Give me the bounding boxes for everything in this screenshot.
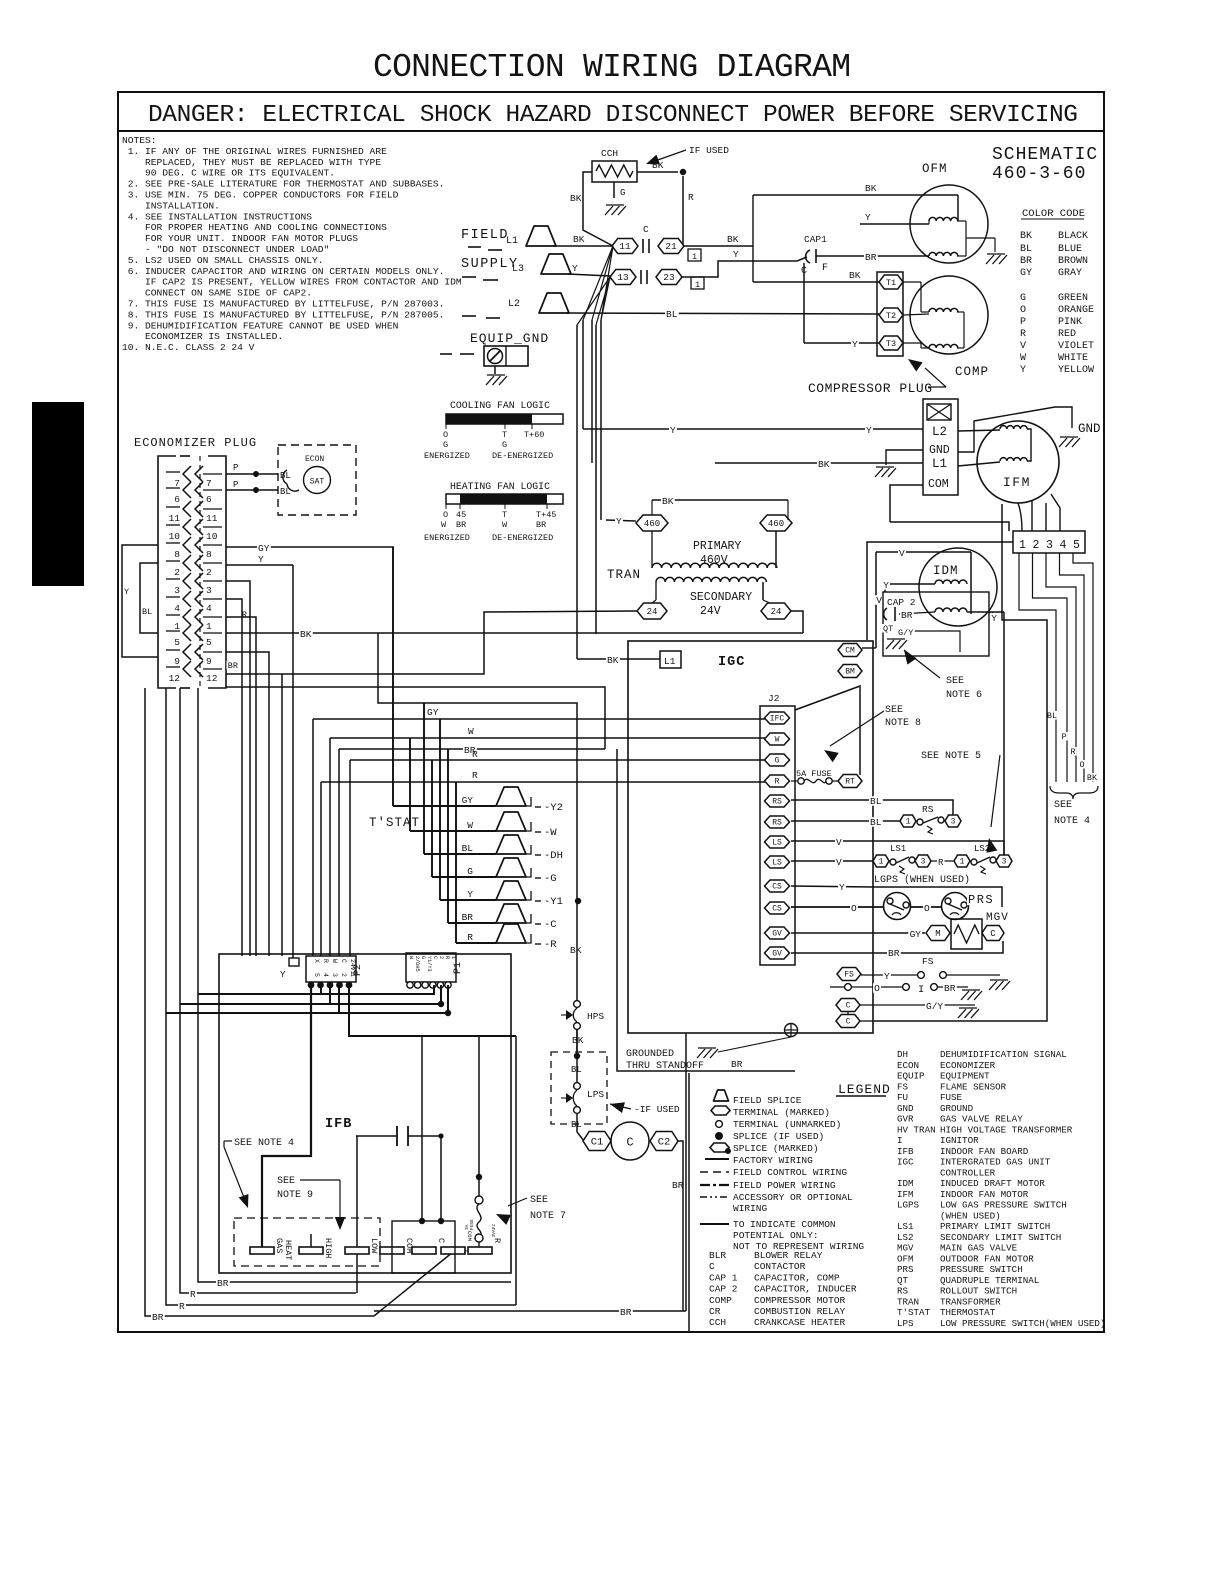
LPS dashed box: [551, 1052, 607, 1124]
svg-text:45: 45: [456, 510, 466, 520]
svg-text:BR: BR: [152, 1312, 164, 1323]
svg-text:BL: BL: [280, 471, 291, 481]
svg-text:IFM: IFM: [1003, 475, 1031, 490]
LGPS box: [873, 887, 1002, 907]
svg-text:13: 13: [617, 272, 629, 283]
svg-text:5: 5: [313, 973, 320, 977]
svg-text:FS: FS: [922, 956, 934, 967]
svg-text:COOLING FAN LOGIC: COOLING FAN LOGIC: [450, 400, 550, 411]
svg-text:PRS: PRS: [968, 893, 994, 907]
svg-text:BK: BK: [865, 183, 877, 194]
legend field power wiring: [700, 1184, 729, 1186]
svg-text:SEE: SEE: [946, 676, 964, 687]
terminal J2 IFC 718: [765, 712, 790, 724]
svg-text:1: 1: [206, 621, 212, 632]
terminal T1: [879, 275, 903, 289]
IGC box: [628, 641, 873, 1033]
svg-text:BLUE: BLUE: [1058, 244, 1082, 255]
svg-text:1. IF ANY OF THE ORIGINAL WIRE: 1. IF ANY OF THE ORIGINAL WIRES FURNISHE…: [122, 146, 387, 157]
wire economizer pin1 vertical: [226, 617, 256, 956]
svg-text:BR: BR: [944, 983, 956, 994]
wire economizer left Y loop: [122, 545, 158, 657]
IFM motor circle: [977, 421, 1059, 503]
ground below equip lug: [487, 374, 505, 376]
IFM wires from plug: [958, 430, 1000, 431]
svg-text:COM: COM: [928, 478, 949, 491]
svg-text:TO INDICATE COMMON: TO INDICATE COMMON: [733, 1219, 836, 1230]
svg-text:LS2: LS2: [897, 1232, 914, 1243]
svg-text:GAS: GAS: [274, 1238, 284, 1253]
wire R down to terminal 21: [682, 176, 684, 246]
svg-text:CAPACITOR, INDUCER: CAPACITOR, INDUCER: [754, 1284, 857, 1295]
wire L1 feed: [577, 658, 660, 660]
svg-text:R: R: [472, 770, 478, 781]
svg-text:2: 2: [340, 973, 347, 977]
svg-text:I: I: [918, 984, 924, 996]
svg-text:BK: BK: [662, 496, 674, 507]
fuse in IFB: [475, 1196, 483, 1204]
svg-text:T+45: T+45: [536, 510, 556, 520]
svg-text:-IF USED: -IF USED: [634, 1104, 680, 1115]
svg-text:L1: L1: [664, 656, 676, 667]
svg-text:LS1: LS1: [890, 844, 906, 854]
svg-text:8: 8: [174, 549, 180, 560]
svg-text:LOW GAS PRESSURE SWITCH: LOW GAS PRESSURE SWITCH: [940, 1200, 1067, 1211]
wire Y into OFM: [860, 223, 929, 225]
svg-text:3A: 3A: [464, 1224, 470, 1230]
wire BR label bottom left: [151, 1312, 165, 1322]
svg-text:1: 1: [879, 858, 884, 867]
svg-text:C2: C2: [658, 1137, 671, 1149]
svg-text:460V: 460V: [700, 554, 728, 567]
svg-text:V: V: [836, 837, 842, 848]
terminal J2 LS 862: [765, 856, 790, 868]
svg-text:DANGER: ELECTRICAL SHOCK HAZAR: DANGER: ELECTRICAL SHOCK HAZARD DISCONNE…: [148, 102, 1078, 129]
terminal CM: [838, 644, 862, 657]
svg-text:9: 9: [174, 656, 180, 667]
wire into splice -DH: [424, 853, 496, 855]
svg-text:CRANKCASE HEATER: CRANKCASE HEATER: [754, 1317, 846, 1328]
svg-text:ECONOMIZER IS INSTALLED.: ECONOMIZER IS INSTALLED.: [122, 331, 283, 342]
terminal J2 G 760: [765, 754, 790, 766]
wire BK below HPS: [576, 1029, 578, 1052]
svg-text:W: W: [441, 520, 447, 530]
svg-text:OUTDOOR FAN MOTOR: OUTDOOR FAN MOTOR: [940, 1253, 1034, 1264]
svg-text:IFM: IFM: [897, 1189, 914, 1200]
terminal T3: [879, 336, 903, 350]
wire plug COM down to IGC CM and strip pin1: [890, 485, 923, 522]
wire legend-left vertical: [685, 1033, 687, 1311]
wire W row to J2 W: [330, 737, 765, 739]
svg-text:FIELD POWER WIRING: FIELD POWER WIRING: [733, 1180, 836, 1191]
wire R row2 to J2 R: [321, 781, 765, 783]
svg-text:5: 5: [206, 637, 212, 648]
svg-text:LS: LS: [772, 859, 782, 868]
svg-text:Y: Y: [991, 613, 997, 624]
svg-text:SEE NOTE 5: SEE NOTE 5: [921, 751, 981, 762]
svg-text:-DH: -DH: [544, 850, 563, 862]
IFM coil top: [1000, 426, 1027, 429]
svg-text:P: P: [1061, 732, 1066, 742]
svg-text:WHITE: WHITE: [1058, 353, 1088, 364]
svg-text:2: 2: [438, 956, 444, 959]
svg-text:O: O: [1079, 760, 1084, 770]
svg-text:8. THIS FUSE IS MANUFACTURED B: 8. THIS FUSE IS MANUFACTURED BY LITTELFU…: [122, 309, 444, 320]
svg-text:IDM: IDM: [897, 1178, 914, 1189]
svg-text:9: 9: [206, 656, 212, 667]
IF USED arrow LPS: [610, 1102, 625, 1113]
svg-text:P: P: [1020, 317, 1026, 328]
svg-text:SECONDARY LIMIT SWITCH: SECONDARY LIMIT SWITCH: [940, 1232, 1061, 1243]
svg-text:Y: Y: [124, 587, 129, 597]
svg-text:HPS: HPS: [587, 1011, 604, 1022]
svg-text:BL: BL: [1047, 711, 1057, 721]
terminal J2 GV 953: [765, 947, 790, 959]
legend field splice symbol: [714, 1090, 729, 1101]
svg-text:INTERGRATED GAS UNIT: INTERGRATED GAS UNIT: [940, 1157, 1051, 1168]
wire V vertical: [875, 552, 877, 648]
economizer plug left shell: [158, 456, 176, 688]
primary coil: [651, 531, 653, 568]
svg-text:GY: GY: [258, 543, 270, 554]
svg-text:Y: Y: [733, 249, 739, 260]
svg-text:NOTE 8: NOTE 8: [885, 718, 921, 729]
svg-text:RS: RS: [897, 1286, 909, 1297]
legend splice marked: [710, 1143, 729, 1152]
svg-text:PRIMARY: PRIMARY: [693, 540, 741, 553]
wire BR to IDM coil2: [899, 612, 935, 614]
svg-text:C: C: [436, 1238, 446, 1243]
terminal C2: [650, 1132, 678, 1151]
svg-text:OFM: OFM: [922, 162, 948, 176]
svg-text:10: 10: [206, 531, 218, 542]
wire CS row2 O: [791, 906, 884, 908]
IFM leads to plug strip: [1031, 501, 1033, 531]
svg-text:10: 10: [169, 531, 181, 542]
legend common potential: [700, 1223, 729, 1225]
svg-text:HEATING FAN LOGIC: HEATING FAN LOGIC: [450, 481, 550, 492]
contactor coil C: [611, 1122, 649, 1160]
svg-text:V: V: [836, 857, 842, 868]
svg-text:24V: 24V: [700, 605, 721, 618]
wire V top of IDM: [876, 551, 971, 553]
wire Y into IDM coil1: [885, 584, 935, 592]
svg-text:(WHEN USED): (WHEN USED): [940, 1210, 1001, 1221]
svg-text:MGV: MGV: [986, 912, 1009, 924]
terminal J2 LS 842: [765, 836, 790, 848]
svg-text:C: C: [709, 1261, 715, 1272]
wire economizer pin9 vertical: [226, 652, 269, 956]
contact capacitor C row2: [640, 270, 642, 284]
field wiring dashes row3: [462, 315, 476, 317]
svg-text:2: 2: [206, 567, 212, 578]
svg-text:CCH: CCH: [601, 148, 618, 159]
svg-text:LGPS: LGPS: [897, 1200, 920, 1211]
svg-text:BR: BR: [217, 1278, 229, 1289]
COMP coil top: [929, 308, 958, 312]
wire into splice -G: [432, 876, 496, 878]
svg-text:BK: BK: [570, 193, 582, 204]
svg-text:BK: BK: [300, 629, 312, 640]
ground right of OFM: [987, 253, 1005, 255]
crankcase heater CCH: [592, 161, 637, 182]
terminal 24 right: [761, 603, 791, 619]
wire standoff BR: [617, 749, 795, 1071]
wire IDM Y down to LS2: [1003, 612, 1005, 855]
CAP2 capacitor symbol: [884, 608, 887, 620]
svg-text:Y: Y: [866, 425, 872, 436]
svg-text:OFM: OFM: [897, 1253, 914, 1264]
svg-text:3. USE MIN. 75 DEG. COPPER CON: 3. USE MIN. 75 DEG. COPPER CONDUCTORS FO…: [122, 190, 399, 201]
svg-text:BR: BR: [865, 252, 877, 263]
wires below P2/P1: [262, 985, 311, 1249]
legend accessory wiring: [700, 1196, 729, 1198]
GND diagonal wire: [958, 407, 1072, 452]
wire equip gnd down: [494, 366, 496, 374]
terminal 11: [612, 239, 638, 254]
svg-text:QUADRUPLE TERMINAL: QUADRUPLE TERMINAL: [940, 1275, 1039, 1286]
wire GV row1 GY: [791, 932, 925, 934]
svg-text:BL: BL: [870, 817, 882, 828]
wire C lower: [860, 1020, 874, 1022]
svg-text:IF USED: IF USED: [689, 145, 729, 156]
svg-text:HV TRAN: HV TRAN: [897, 1124, 936, 1135]
svg-text:GV: GV: [772, 930, 782, 939]
svg-text:5: 5: [1073, 539, 1080, 552]
svg-text:GY: GY: [462, 795, 474, 806]
svg-text:DE-ENERGIZED: DE-ENERGIZED: [492, 533, 553, 543]
svg-text:GROUND: GROUND: [940, 1103, 974, 1114]
svg-text:5: 5: [174, 637, 180, 648]
svg-text:Y: Y: [572, 263, 578, 274]
legend left border: [688, 1073, 690, 1332]
svg-text:Y: Y: [616, 516, 622, 527]
svg-text:3: 3: [1046, 539, 1053, 552]
wire CAP1 C to T3 vertical: [803, 263, 805, 343]
svg-text:IDM: IDM: [933, 564, 959, 578]
svg-text:RS: RS: [772, 798, 782, 807]
wire 23 to CAP1: [682, 257, 807, 277]
svg-text:P: P: [233, 480, 238, 490]
svg-text:LOW PRESSURE SWITCH(WHEN USED): LOW PRESSURE SWITCH(WHEN USED): [940, 1318, 1105, 1329]
svg-text:3: 3: [206, 585, 212, 596]
svg-text:1: 1: [349, 973, 356, 977]
svg-text:BK: BK: [607, 655, 619, 666]
wire G/Y CAP2: [914, 631, 960, 652]
svg-text:HIGH VOLTAGE TRANSFORMER: HIGH VOLTAGE TRANSFORMER: [940, 1124, 1073, 1135]
wire LS1 to LS2 R: [931, 860, 954, 862]
OFM coil top: [929, 217, 958, 221]
svg-text:460: 460: [768, 519, 784, 529]
wire into splice -W: [410, 830, 496, 832]
thermostat splice -DH: [496, 835, 526, 854]
wire into splice -Y2: [393, 805, 496, 807]
svg-text:BR: BR: [672, 1180, 684, 1191]
svg-text:CS: CS: [772, 905, 782, 914]
svg-text:ENERGIZED: ENERGIZED: [424, 451, 470, 461]
svg-text:INSTALLATION.: INSTALLATION.: [122, 200, 220, 211]
terminal 21: [658, 239, 684, 254]
svg-text:2: 2: [1033, 539, 1040, 552]
svg-text:DE-ENERGIZED: DE-ENERGIZED: [492, 451, 553, 461]
svg-text:11: 11: [619, 241, 631, 252]
svg-text:90 DEG. C WIRE OR ITS EQUIVALE: 90 DEG. C WIRE OR ITS EQUIVALENT.: [122, 168, 335, 179]
wire P row2: [226, 489, 278, 491]
svg-text:T1: T1: [886, 278, 896, 288]
svg-text:PINK: PINK: [1058, 317, 1082, 328]
svg-text:ECONOMIZER: ECONOMIZER: [940, 1060, 996, 1071]
svg-text:CAP1: CAP1: [804, 234, 827, 245]
svg-text:LOW: LOW: [369, 1238, 379, 1254]
wire bottom BR long: [374, 1310, 686, 1312]
svg-text:T: T: [502, 430, 507, 440]
PRS label: [967, 893, 991, 905]
svg-text:IGC: IGC: [718, 655, 745, 670]
svg-text:BLOWER RELAY: BLOWER RELAY: [754, 1250, 823, 1261]
svg-text:BM: BM: [845, 668, 855, 677]
svg-text:O: O: [443, 430, 448, 440]
terminal BM: [838, 665, 862, 678]
svg-text:PRESSURE SWITCH: PRESSURE SWITCH: [940, 1264, 1023, 1275]
svg-text:BK: BK: [1087, 773, 1098, 783]
wire CCH left to contactor: [583, 172, 613, 246]
svg-text:4: 4: [206, 603, 212, 614]
J2 connector outline: [760, 706, 795, 965]
svg-text:NOTE 4: NOTE 4: [1054, 816, 1090, 827]
svg-text:FS: FS: [844, 971, 854, 980]
svg-text:CM: CM: [845, 647, 855, 656]
svg-text:V: V: [1020, 341, 1026, 352]
terminal J2 CS 908: [765, 902, 790, 914]
svg-text:C: C: [846, 1018, 851, 1027]
IFM coil bracket: [1027, 429, 1031, 461]
wire OFM internal: [957, 195, 959, 221]
IFB dashed box: [234, 1218, 380, 1266]
svg-text:G: G: [443, 440, 448, 450]
bundle verticals: [582, 320, 584, 429]
COMP motor circle: [910, 276, 988, 354]
wire left nest R row2: [180, 688, 356, 1293]
svg-text:IF CAP2 IS PRESENT, YELLOW WIR: IF CAP2 IS PRESENT, YELLOW WIRES FROM CO…: [122, 277, 462, 288]
svg-text:R: R: [688, 192, 694, 203]
svg-text:SCHEMATIC: SCHEMATIC: [992, 145, 1098, 165]
svg-text:Y: Y: [258, 554, 264, 565]
outdoor fan motor OFM: [910, 185, 988, 263]
svg-text:BL: BL: [462, 843, 474, 854]
svg-text:QT: QT: [883, 624, 893, 634]
svg-text:G/Y: G/Y: [898, 628, 913, 638]
danger banner box: [118, 130, 1104, 132]
COMP coil bottom: [929, 344, 958, 348]
svg-text:24: 24: [771, 607, 782, 617]
svg-text:V: V: [899, 548, 905, 559]
svg-text:Y: Y: [280, 970, 286, 980]
svg-text:NOTES:: NOTES:: [122, 135, 157, 146]
svg-text:C: C: [340, 959, 347, 963]
svg-text:R: R: [467, 932, 473, 943]
svg-text:-G: -G: [544, 873, 557, 885]
grounded thru standoff symbol: [785, 1024, 798, 1037]
svg-text:T+60: T+60: [524, 430, 544, 440]
wire L2 BL long to T2: [566, 313, 879, 314]
svg-text:T3: T3: [886, 339, 896, 349]
wire 24 left out to economizer: [226, 611, 637, 674]
equip ground lug: [484, 346, 528, 366]
wire GY from economizer: [226, 546, 394, 548]
svg-text:R: R: [1070, 747, 1075, 757]
svg-text:CAP 2: CAP 2: [887, 597, 916, 608]
svg-text:R: R: [938, 858, 944, 868]
svg-text:1: 1: [960, 858, 965, 867]
wire economizer pin12 tee vertical: [281, 674, 283, 956]
svg-text:11: 11: [206, 513, 218, 524]
svg-text:T'STAT: T'STAT: [897, 1307, 931, 1318]
svg-text:WIRING: WIRING: [733, 1203, 768, 1214]
wire Y to T3: [804, 342, 879, 344]
svg-text:GVR: GVR: [897, 1114, 914, 1125]
legend factory wiring: [705, 1158, 729, 1160]
svg-text:Y: Y: [884, 971, 890, 982]
IFB box: [219, 954, 511, 1273]
svg-text:C: C: [846, 1002, 851, 1011]
OFM coil bottom: [929, 252, 958, 256]
svg-text:O: O: [924, 903, 930, 914]
ground top right: [1060, 436, 1078, 438]
svg-text:BLACK: BLACK: [1058, 231, 1088, 242]
svg-text:I: I: [897, 1135, 903, 1146]
svg-text:R: R: [190, 1289, 196, 1300]
svg-text:3: 3: [1002, 858, 1007, 867]
wire R vertical from economizer pin3: [226, 581, 250, 956]
svg-text:BK: BK: [570, 945, 582, 956]
svg-text:Y: Y: [839, 882, 845, 893]
svg-text:6: 6: [174, 494, 180, 505]
contact capacitor C row1: [642, 239, 644, 253]
svg-text:G: G: [620, 188, 625, 198]
legend terminal unmarked: [716, 1121, 723, 1128]
svg-text:460: 460: [644, 519, 660, 529]
wire dots up: [421, 1036, 423, 1221]
svg-text:IFC: IFC: [770, 715, 785, 724]
svg-text:9. DEHUMIDIFICATION FEATURE CA: 9. DEHUMIDIFICATION FEATURE CANNOT BE US…: [122, 320, 398, 331]
connector P1 box: [406, 953, 456, 982]
svg-text:TRAN: TRAN: [897, 1296, 919, 1307]
svg-text:460-3-60: 460-3-60: [992, 164, 1086, 184]
wire coil2 to Y vertical: [967, 611, 1004, 613]
wire CCH ground stub: [613, 182, 615, 198]
svg-text:G: G: [502, 440, 507, 450]
svg-text:- "DO NOT DISCONNECT UNDER LOA: - "DO NOT DISCONNECT UNDER LOAD": [122, 244, 329, 255]
black page tab: [32, 402, 84, 586]
svg-text:6. INDUCER CAPACITOR AND WIRIN: 6. INDUCER CAPACITOR AND WIRING ON CERTA…: [122, 266, 444, 277]
IFB terminals: [250, 1247, 274, 1254]
svg-text:GY: GY: [1020, 268, 1032, 279]
wire BK vertical to OFM and T1: [752, 195, 754, 282]
svg-text:FLAME SENSOR: FLAME SENSOR: [940, 1081, 1007, 1092]
svg-text:BK: BK: [727, 234, 739, 245]
wire BK to T1: [753, 281, 879, 283]
svg-text:ACCESSORY OR OPTIONAL: ACCESSORY OR OPTIONAL: [733, 1192, 853, 1203]
HIGH stub: [310, 1234, 312, 1247]
svg-text:EQUIPMENT: EQUIPMENT: [940, 1071, 990, 1082]
svg-text:BR: BR: [1020, 256, 1032, 267]
terminal RT: [838, 775, 862, 788]
svg-text:NOTE 9: NOTE 9: [277, 1190, 313, 1201]
svg-text:FOR YOUR UNIT. INDOOR FAN MOTO: FOR YOUR UNIT. INDOOR FAN MOTOR PLUGS: [122, 233, 358, 244]
svg-text:C: C: [990, 929, 996, 939]
svg-text:C: C: [626, 1136, 633, 1150]
svg-text:DEHUMIDIFICATION SIGNAL: DEHUMIDIFICATION SIGNAL: [940, 1049, 1067, 1060]
